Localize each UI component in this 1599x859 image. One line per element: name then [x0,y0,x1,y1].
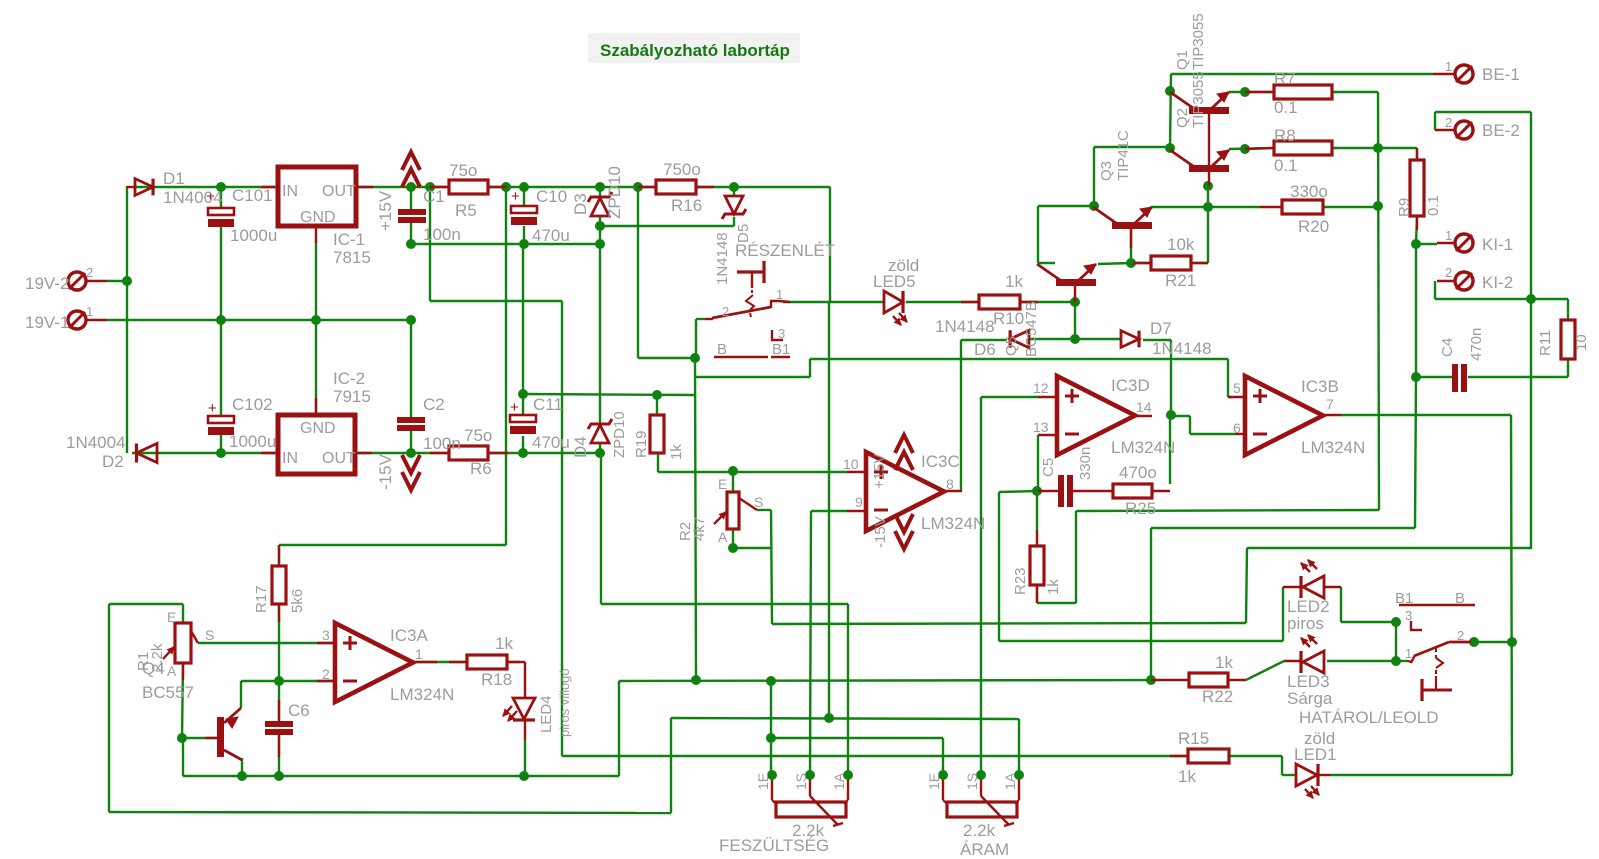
wire D5 leads [733,187,735,196]
node D5 top [729,182,739,192]
wire IC3C-out up x961 [960,340,962,491]
resistor R15 body [1188,749,1229,763]
svg-text:D2: D2 [102,452,124,471]
wire corner x830 down [829,187,831,302]
node HL pin1 node [1391,656,1401,666]
node C4 left [1411,372,1421,382]
svg-text:1A: 1A [831,772,847,790]
wire x523 C10-C11 link [522,244,524,394]
wire ARAM 1E drop [942,738,944,775]
wire R25 right lead link [1152,490,1170,492]
wire R7 right link [1332,91,1378,93]
capacitor C10 plates [511,206,537,213]
svg-text:1N4148: 1N4148 [935,317,995,336]
svg-text:C101: C101 [232,186,273,205]
node C101-gnd [216,315,226,325]
resistor R22 body [1189,673,1228,687]
svg-text:ZPD10: ZPD10 [605,166,624,219]
node D3 anode y226 [595,221,605,231]
node y738 branch [766,733,776,743]
svg-text:TIP41C: TIP41C [1115,130,1132,181]
wire R19 top [656,395,658,415]
wire LED5 to R10 [906,301,979,303]
svg-text:piros: piros [1287,614,1324,633]
wire A-S tie [733,547,771,549]
svg-text:3: 3 [322,627,330,643]
wire R21 right lead link [1191,262,1208,264]
capacitor C1 plates [398,209,426,215]
capacitor C2 plates [397,417,425,423]
svg-text:B: B [717,341,727,358]
wire x638 down to y358 [637,187,639,358]
svg-text:R17: R17 [253,585,270,613]
wire Q3 emitter row y207 [1151,206,1260,208]
svg-text:5: 5 [1233,380,1241,396]
wire D3 leads [599,187,601,196]
wire y511 R23 to x1379 [1076,510,1379,511]
node IC-gnd [311,315,321,325]
svg-text:3: 3 [778,326,785,341]
zener D5 body [725,196,743,214]
svg-text:R25: R25 [1125,499,1156,518]
node Q3 base [1126,258,1136,268]
wire C2 bottom [410,431,412,453]
svg-text:GND: GND [300,420,336,437]
svg-text:C1: C1 [423,187,445,206]
node Q4 collector [237,771,247,781]
wire R10 to BC547 base [1020,301,1075,303]
node Q3 collector node [1089,201,1099,211]
wire Q1Q2 base chain [1207,186,1209,207]
wire R2 S link [757,509,771,511]
wire R15 right to LED1 [1229,755,1282,757]
svg-text:100n: 100n [423,434,461,453]
node y244 x411 [406,239,416,249]
node ARAM 1E [938,770,948,780]
svg-text:75o: 75o [464,426,492,445]
wire C101 lead [220,187,222,208]
svg-text:1E: 1E [755,773,771,790]
svg-text:12: 12 [1033,380,1049,396]
svg-text:1k: 1k [668,444,685,460]
switch HATAROL/LEOLD [1408,661,1412,662]
capacitor C4 [1452,364,1458,392]
node 19V-2 junction [122,276,132,286]
wire 1E drop x771 [770,681,772,775]
BC547 body [1056,279,1096,286]
svg-text:D3: D3 [571,193,590,215]
svg-text:D4: D4 [571,436,590,458]
svg-text:750o: 750o [663,160,701,179]
wire bottom rail y776 [183,775,619,777]
wire IC3D pin13 drop [1037,435,1039,491]
node HL pin3 node [1391,617,1401,627]
node C10 top [519,182,529,192]
svg-text:C102: C102 [232,395,273,414]
svg-text:+: + [511,188,520,205]
resistor R21 body [1151,256,1191,270]
resistor R16 body [656,180,696,194]
wire R17 feed corner [279,544,506,546]
node R22 left [1146,675,1156,685]
node R2 E [728,466,738,476]
IC3D triangle [1057,376,1135,455]
svg-text:2: 2 [1445,265,1452,280]
svg-text:8: 8 [946,476,954,492]
node Q4 base [177,733,187,743]
wire IC2 GND up [315,320,317,415]
svg-text:19V-2: 19V-2 [25,274,69,293]
wire x1379 up to R7/R8/R20 [1378,92,1379,510]
node y244 C10 [519,239,529,249]
wire R18 to LED4 [507,661,525,663]
wire y622 to pin3 node [1341,621,1396,623]
wire y718 row [671,718,1019,719]
svg-text:1: 1 [1445,228,1452,243]
wire x601 from D4 node [600,453,602,604]
wire y359 to IC3B pin5 [810,358,1228,360]
svg-text:1k: 1k [1045,579,1062,595]
wire pin2 corner down x241 [240,681,242,708]
svg-text:2: 2 [86,265,93,280]
wire IC3B out corner down x1511 [1511,415,1512,775]
wire LED2 right drop [1340,587,1342,622]
wire KI-1 stub link [1416,243,1437,245]
wire vertical D1-anode/D2-cathode x=127 [126,186,128,453]
trimmer R1 2.2k [175,623,191,663]
IC3C +15V arrow [895,435,913,453]
wire x1151 down [1150,528,1152,680]
-15V arrow [402,472,420,490]
node FESZ 1S [805,770,815,780]
wire C1 bottom to y244 [410,223,412,244]
node C1 top [406,182,416,192]
LED LED2 [1299,576,1302,598]
svg-text:1A: 1A [1002,772,1018,790]
node C11 bottom [518,448,528,458]
wire y681 row [619,680,1151,681]
svg-text:S: S [754,494,763,510]
X 19V-2 [68,272,86,290]
wire x695 down [695,358,696,680]
wire y547 output sense [1247,547,1532,549]
svg-text:100n: 100n [423,225,461,244]
svg-text:Q5: Q5 [1003,336,1020,356]
wire LED3 cathode lead [1327,660,1396,662]
svg-text:9: 9 [855,494,863,510]
diode D7 body [1121,331,1139,348]
svg-text:1k: 1k [1005,272,1023,291]
wire jog x810 [809,359,811,377]
wire IC1 out to R5 [356,186,449,188]
svg-text:2: 2 [322,666,330,682]
node R8 right [1373,143,1383,153]
svg-text:C11: C11 [533,395,563,414]
svg-text:10: 10 [1573,334,1590,351]
wire R11 bottom [1567,359,1569,377]
wire R6 to D4 [488,452,600,454]
node y244 D3 [595,239,605,249]
diode D1 body [135,179,153,196]
svg-text:A: A [718,529,728,545]
svg-text:C5: C5 [1040,458,1057,477]
svg-text:TIP3055: TIP3055 [1190,71,1207,128]
node FESZ-1E branch [766,676,776,686]
X BE-1 [1455,65,1473,83]
node base pin end [1203,181,1213,191]
svg-text:+15V: +15V [871,454,888,489]
node D4 bottom [595,448,605,458]
wire y206 BC547-C to Q3-C [1038,205,1094,207]
svg-text:470u: 470u [532,433,570,452]
wire BC547 base down to D6-D7 [1074,302,1076,339]
IC3C triangle [866,452,944,531]
node Q1 collector [1165,86,1175,96]
svg-text:R16: R16 [671,196,702,215]
svg-text:RÉSZENLÉT: RÉSZENLÉT [735,241,835,260]
svg-text:BC557: BC557 [142,683,194,702]
svg-text:IC3D: IC3D [1111,376,1150,395]
capacitor C11 plates [510,415,536,422]
svg-text:B1: B1 [1395,590,1413,607]
wire R23 bottom link [1036,585,1038,603]
wire BC547 emitter link [1098,263,1131,264]
diode D2 body [137,444,158,463]
svg-text:1N4148: 1N4148 [1152,339,1212,358]
node x695 y358 [690,353,700,363]
svg-text:R18: R18 [481,670,512,689]
wire x1531 BE2/KI2 net down [1530,112,1532,548]
svg-text:LED5: LED5 [873,272,916,291]
svg-text:+: + [208,400,217,417]
wire R17 bottom to pin2 node [278,604,280,681]
svg-text:2: 2 [1445,115,1452,130]
wire x810 pin9 chain down [810,511,811,775]
svg-text:LED4: LED4 [538,695,555,733]
svg-text:6: 6 [1233,420,1241,436]
wire y301 link [430,300,562,302]
svg-text:4k7: 4k7 [691,517,708,541]
svg-text:BE-2: BE-2 [1482,121,1520,140]
svg-text:BC547B: BC547B [1023,301,1040,357]
wire C1 top lead [410,187,412,209]
node R20 right [1373,201,1383,211]
svg-text:2: 2 [1457,628,1464,643]
wire BE-1 row y74 [1171,73,1433,75]
wire C102 chain [220,395,222,416]
resistor R18 body [467,655,507,669]
wire x430 down [429,187,431,301]
wire C101 bottom to gnd rail [220,227,222,320]
wire IC1 GND lead down [315,241,317,320]
svg-text:10k: 10k [1167,235,1195,254]
svg-text:1: 1 [1405,646,1412,661]
svg-text:R8: R8 [1274,126,1296,145]
wire x1171 down to IC3D out [1170,340,1172,415]
wire x999 from C5 node [998,492,1000,641]
svg-text:7: 7 [1326,396,1334,412]
wire C2 top from y320 [410,320,412,417]
svg-text:OUT: OUT [322,450,356,467]
node FESZ 1E [767,770,777,780]
svg-text:R10: R10 [993,309,1024,328]
svg-text:LM324N: LM324N [921,514,985,533]
resistor R5 body [449,180,488,194]
wire LED1 cathode row to corner [1330,774,1512,776]
X BE-2 [1455,121,1473,139]
svg-text:C10: C10 [536,187,567,206]
wire x1246 up [1246,548,1247,623]
node C2 bottom x411 [406,448,416,458]
wire jog y377 to x810 [695,376,810,378]
svg-text:10: 10 [843,456,859,472]
svg-text:R7: R7 [1274,69,1296,88]
LED LED5 [884,291,903,313]
node Q2 collector [1165,143,1175,153]
wire Q3 base down [1130,229,1132,263]
svg-text:470o: 470o [1119,463,1157,482]
wire D7 anode link [1075,338,1121,340]
svg-text:IN: IN [282,450,298,467]
svg-text:1000u: 1000u [230,226,277,245]
node R16 left / D3 [633,182,643,192]
node BC547 base [1070,297,1080,307]
wire ARAM wiper x981 [980,397,982,775]
wire C6 bottom lead [278,733,280,776]
node IC3D out [1166,410,1176,420]
wire y641 LED2 feed [999,640,1283,642]
wire left loop x109 [108,604,110,812]
wire R21 right corner [1207,207,1209,263]
svg-text:D7: D7 [1150,319,1172,338]
wire C5 node link [999,491,1037,492]
node R17-feed x506 [501,182,511,192]
wire BE-2 link [1435,111,1531,113]
svg-text:-15V: -15V [376,453,395,490]
svg-text:R23: R23 [1012,567,1029,595]
svg-text:1N4148: 1N4148 [714,232,731,285]
svg-text:Q2: Q2 [1174,108,1191,128]
node D3 top [595,182,605,192]
svg-text:LM324N: LM324N [390,685,454,704]
wire y471 IC3C pin10 row [658,471,847,473]
LED LED3 [1299,651,1302,673]
svg-text:IN: IN [282,183,298,200]
wire pin1 hook link [1396,660,1408,662]
node C101 top [216,182,226,192]
svg-text:2: 2 [722,304,729,319]
svg-text:2.2k: 2.2k [963,821,996,840]
svg-text:LM324N: LM324N [1111,438,1175,457]
wire x671 link [670,718,672,813]
wire switch pin1 row y302 [783,301,884,303]
transistor Q4 BC557 [217,717,224,757]
X 19V-1 [68,311,86,329]
wire R20 right link [1323,206,1378,208]
wire gnd mid rail y=244 [411,243,600,245]
wire y453 -rail D2..IC2 [132,452,278,454]
svg-text:LM324N: LM324N [1301,438,1365,457]
wire C11 leads [522,394,524,415]
wire y395 C11-R19 [523,394,696,395]
node Q2 emitter [1240,144,1250,154]
svg-text:5k6: 5k6 [289,589,306,613]
wire D3-D5 anode link y=226 [600,225,734,227]
wire D7 cathode to corner [1143,339,1171,341]
svg-text:Q4: Q4 [142,659,165,678]
svg-text:GND: GND [300,209,336,226]
Q3 body [1112,222,1152,229]
wire R5 right to R16 [488,186,656,188]
svg-text:1k: 1k [1178,767,1196,786]
svg-text:FESZÜLTSÉG: FESZÜLTSÉG [719,836,829,855]
svg-text:Q1: Q1 [1174,50,1191,70]
wire y812 row [109,812,671,813]
wire R2 bottom [732,529,734,548]
svg-text:+: + [510,399,519,416]
node R2 A-S tie [728,543,738,553]
zener D4 body [588,419,612,429]
svg-text:1: 1 [776,287,783,302]
node KI-2 y299 [1526,294,1536,304]
svg-text:7815: 7815 [333,248,371,267]
wire LED2 corner up [1282,587,1284,641]
node LED4 bottom [519,771,529,781]
svg-text:IC3B: IC3B [1301,377,1339,396]
LED LED4 [513,698,535,719]
IC3A triangle [335,623,413,702]
regulator IC-2 7915 [278,415,355,474]
svg-text:A: A [167,663,177,679]
node C11 top [518,389,528,399]
svg-text:7915: 7915 [333,387,371,406]
wire x829 down to y718 [828,302,830,718]
wire y738 to ARAM-1E [771,737,943,739]
wire pin2 HL link [1474,641,1512,643]
wire y756 R15 feed [562,755,1188,757]
svg-text:KI-2: KI-2 [1482,273,1513,292]
Q2 body [1189,165,1229,172]
node base drive [1203,202,1213,212]
pushbutton RESZENLET [737,270,763,273]
resistor R7 body [1274,85,1332,99]
wire D6 cathode link y340 [961,339,1006,341]
svg-text:13: 13 [1033,419,1049,435]
Q1 body [1189,107,1229,114]
regulator IC-1 7815 [278,167,356,226]
capacitor C6 [265,721,293,727]
wire BC547 collector chain [1038,262,1055,264]
node R5 left [425,182,435,192]
wire base link [182,737,218,739]
svg-text:C4: C4 [1439,338,1456,357]
svg-text:19V-1: 19V-1 [25,313,69,332]
resistor R8 body [1274,141,1332,155]
zener D3 body [588,192,612,202]
wire main +rail y=187 D1..IC1 [135,186,278,188]
wire LED4 cathode [524,720,526,740]
svg-text:470n: 470n [1468,328,1485,361]
svg-text:1N4004: 1N4004 [163,188,223,207]
wire R1 A to Q4 base [182,663,183,738]
wire y358 to switch node [638,357,695,359]
svg-text:IC3C: IC3C [921,452,960,471]
node x829 y718 [824,713,834,723]
wire loop top y604 [109,603,183,605]
svg-text:C6: C6 [288,701,310,720]
wire 19V-1 rail y=320 [107,319,411,321]
node D6-D7 junction [1070,334,1080,344]
